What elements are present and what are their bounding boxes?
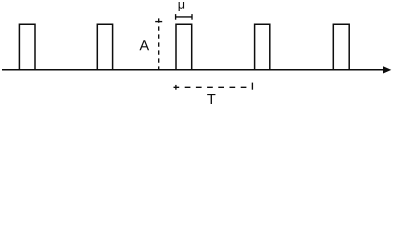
label T — [207, 94, 215, 104]
axis arrowhead — [383, 66, 391, 73]
amplitude dashed dimension line — [155, 18, 162, 70]
label A — [139, 40, 149, 50]
pulse 3 — [176, 24, 192, 70]
period T dashed dimension line — [174, 83, 253, 90]
label mu — [179, 2, 184, 11]
pulse 2 — [97, 24, 112, 70]
pulse 5 — [333, 24, 349, 70]
pulse 1 — [19, 24, 35, 70]
mu width dimension line — [176, 14, 192, 20]
pulse 4 — [255, 24, 270, 70]
time axis — [2, 69, 385, 71]
